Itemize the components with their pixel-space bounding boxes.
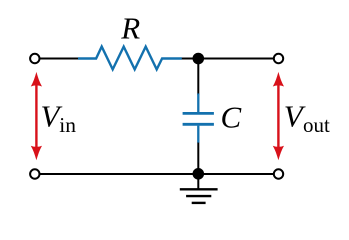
svg-text:R: R bbox=[120, 11, 140, 46]
capacitor C1 bbox=[183, 94, 214, 143]
svg-text:out: out bbox=[303, 113, 330, 137]
resistor R1 zigzag bbox=[78, 47, 182, 70]
svg-text:C: C bbox=[221, 100, 242, 135]
wire bottom: left terminal to right terminal bbox=[40, 173, 275, 175]
Vout arrow (red double-headed) bbox=[273, 72, 284, 160]
Vin arrow (red double-headed) bbox=[31, 72, 42, 160]
wire top-left: left terminal to resistor bbox=[40, 58, 80, 60]
node A (junction dot top) bbox=[193, 53, 205, 65]
wire vertical: capacitor down to node B bbox=[197, 142, 199, 175]
wire vertical: node A down to capacitor bbox=[197, 59, 199, 96]
ground bbox=[180, 189, 218, 203]
node B (junction dot bottom) bbox=[193, 168, 205, 180]
terminal top-right bbox=[274, 54, 283, 63]
wire: node B to ground bbox=[197, 174, 199, 189]
wire top-right: resistor to node A to right terminal bbox=[182, 58, 275, 60]
svg-text:in: in bbox=[59, 113, 76, 137]
terminal bottom-right bbox=[274, 169, 283, 178]
terminal bottom-left bbox=[30, 169, 39, 178]
terminal top-left bbox=[30, 54, 39, 63]
